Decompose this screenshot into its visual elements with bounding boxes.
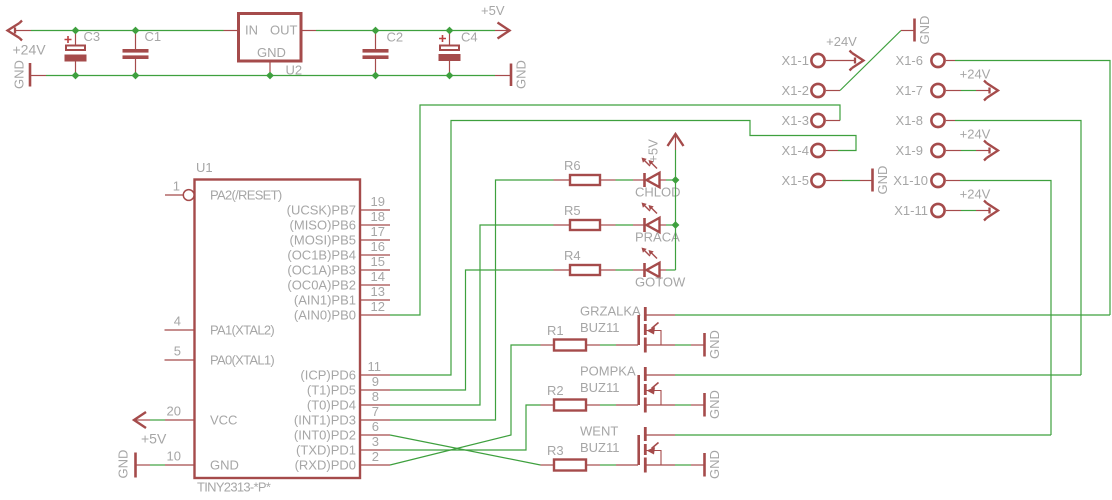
wire (source Q3 to ground) [675, 464, 691, 466]
wire (X1-9 to +24V) [961, 150, 976, 152]
junction node [132, 72, 140, 80]
svg-text:U1: U1 [196, 160, 213, 175]
svg-text:+5V: +5V [481, 3, 505, 18]
svg-text:GND: GND [707, 330, 722, 359]
svg-text:X1-8: X1-8 [896, 113, 923, 128]
svg-text:U2: U2 [286, 63, 303, 78]
svg-text:PA0(XTAL1): PA0(XTAL1) [210, 353, 274, 368]
svg-text:19: 19 [371, 194, 385, 209]
wire (LED CHLOD to +5V rail) [666, 179, 676, 181]
svg-text:(INT0)PD2: (INT0)PD2 [294, 428, 356, 443]
svg-text:(OC0A)PB2: (OC0A)PB2 [287, 278, 356, 293]
connector pin X1-3 [782, 113, 840, 128]
svg-text:(OC1A)PB3: (OC1A)PB3 [287, 263, 356, 278]
+24V supply arrow (X1-7) [976, 81, 998, 101]
svg-text:7: 7 [372, 404, 379, 419]
svg-text:11: 11 [368, 359, 382, 374]
resistor R6 [554, 158, 616, 185]
svg-text:X1-9: X1-9 [896, 143, 923, 158]
svg-text:X1-7: X1-7 [896, 83, 923, 98]
junction node [446, 27, 454, 35]
wire net PD4 to R5 [390, 225, 554, 405]
capacitor C1 [123, 29, 162, 76]
pin 9 (T1)PD5 [307, 374, 390, 398]
svg-text:20: 20 [167, 404, 181, 419]
pin 4 PA1(XTAL2) [165, 314, 275, 338]
junction node [672, 176, 680, 184]
svg-text:X1-4: X1-4 [782, 143, 809, 158]
pin 15 (OC1A)PB3 [287, 254, 390, 278]
svg-text:GND: GND [12, 60, 27, 89]
pin 8 (T0)PD4 [307, 389, 390, 413]
ground (X1-2) [901, 16, 932, 45]
ground (Q2 source) [691, 390, 722, 419]
wire (X1-2 pin stub) [826, 90, 840, 92]
svg-text:PA2(/RESET): PA2(/RESET) [210, 188, 282, 203]
resistor R4 [554, 248, 616, 275]
pin 1 PA2(/RESET) [165, 179, 282, 203]
pin 19 (UCSK)PB7 [287, 194, 390, 218]
ground (Q3 source) [691, 450, 722, 479]
svg-text:10: 10 [167, 449, 181, 464]
wire (R5 to LED) [616, 224, 634, 226]
svg-text:(UCSK)PB7: (UCSK)PB7 [287, 203, 356, 218]
+24V supply arrow (X1-11) [976, 201, 998, 221]
pin 18 (MISO)PB6 [290, 209, 390, 233]
svg-text:GND: GND [875, 166, 890, 195]
pin 10 GND [165, 449, 239, 473]
wire net PD3 to R6 [390, 180, 554, 420]
svg-text:16: 16 [371, 239, 385, 254]
LED CHLOD [633, 158, 681, 200]
svg-text:R3: R3 [547, 443, 564, 458]
wire (GND pin) [150, 464, 165, 466]
pin 12 (AIN0)PB0 [294, 299, 390, 323]
svg-text:4: 4 [174, 314, 181, 329]
connector pin X1-2 [782, 83, 825, 98]
wire (R1 to gate Q1) [600, 344, 616, 346]
svg-text:X1-3: X1-3 [782, 113, 809, 128]
pin 11 (ICP)PD6 [300, 359, 390, 383]
svg-text:17: 17 [371, 224, 385, 239]
svg-text:6: 6 [372, 419, 379, 434]
svg-text:2: 2 [372, 449, 379, 464]
svg-text:C2: C2 [387, 30, 404, 45]
wire net PB0 to X1-3 [390, 105, 840, 315]
wire (R4 to LED) [616, 269, 634, 271]
wire (X1-7 to +24V) [961, 90, 976, 92]
svg-text:GRZALKA: GRZALKA [580, 304, 641, 319]
wire (X1-2 to ground, diagonal) [840, 31, 901, 91]
junction node [672, 221, 680, 229]
ground GND (supply input) [12, 60, 47, 89]
svg-text:X1-6: X1-6 [896, 53, 923, 68]
wire +5V LED rail [675, 150, 677, 270]
svg-text:(RXD)PD0: (RXD)PD0 [295, 458, 356, 473]
svg-text:(ICP)PD6: (ICP)PD6 [300, 368, 356, 383]
svg-text:BUZ11: BUZ11 [580, 320, 620, 335]
wire net PD5 to R4 [390, 270, 554, 390]
svg-text:C1: C1 [145, 29, 162, 44]
resistor R2 [541, 383, 601, 411]
pin 17 (MOSI)PB5 [290, 224, 390, 248]
connector pin X1-4 [782, 143, 838, 158]
+5V supply arrow [495, 23, 510, 39]
svg-text:R2: R2 [547, 383, 564, 398]
voltage regulator U2 [224, 14, 317, 78]
svg-text:(INT1)PD3: (INT1)PD3 [294, 413, 356, 428]
svg-text:R1: R1 [547, 323, 564, 338]
svg-text:PRACA: PRACA [635, 230, 680, 245]
svg-text:+5V: +5V [646, 139, 661, 163]
svg-text:(T0)PD4: (T0)PD4 [307, 398, 356, 413]
pin 20 VCC [165, 404, 237, 428]
connector pin X1-7 [896, 83, 961, 98]
svg-text:X1-1: X1-1 [782, 53, 809, 68]
resistor R1 [541, 323, 601, 351]
wire (source Q2 to ground) [675, 404, 691, 406]
svg-text:GND: GND [257, 45, 286, 60]
svg-text:(TXD)PD1: (TXD)PD1 [296, 443, 356, 458]
junction node [72, 72, 80, 80]
svg-text:C3: C3 [84, 29, 101, 44]
pin 5 PA0(XTAL1) [165, 344, 275, 368]
ground GND (rail right) [495, 60, 529, 89]
pin 13 (AIN1)PB1 [294, 284, 390, 308]
svg-text:(AIN0)PB0: (AIN0)PB0 [294, 308, 356, 323]
wire (X1-10 to drain Q3) [960, 181, 1051, 436]
wire +24V top rail [31, 30, 224, 32]
svg-text:GND: GND [917, 16, 932, 45]
svg-text:+24V: +24V [826, 34, 857, 49]
wire (R6 to LED) [616, 179, 634, 181]
ground GND (U1) [116, 450, 151, 479]
wire (drain Q3 to X1-10) [675, 434, 1051, 436]
svg-text:C4: C4 [461, 30, 478, 45]
wire (R2 to gate Q2) [600, 404, 616, 406]
svg-text:X1-5: X1-5 [782, 173, 809, 188]
capacitor C3 [65, 29, 101, 76]
wire (drain Q1 to X1-6) [675, 314, 1110, 316]
svg-text:14: 14 [371, 269, 385, 284]
svg-text:12: 12 [371, 299, 385, 314]
svg-text:13: 13 [371, 284, 385, 299]
+24V supply arrow (X1-1) [826, 51, 864, 71]
svg-text:+5V: +5V [141, 431, 167, 447]
svg-text:3: 3 [372, 434, 379, 449]
transistor Q2 BUZ11 POMPKA [580, 364, 675, 413]
svg-text:(MISO)PB6: (MISO)PB6 [290, 218, 356, 233]
svg-text:CHLOD: CHLOD [635, 185, 681, 200]
svg-text:BUZ11: BUZ11 [580, 440, 620, 455]
svg-text:1: 1 [173, 179, 180, 194]
svg-text:5: 5 [174, 344, 181, 359]
wire (VCC to +5V) [150, 419, 165, 421]
svg-text:X1-11: X1-11 [894, 203, 928, 218]
wire +5V top rail [316, 30, 495, 32]
svg-text:TINY2313-*P*: TINY2313-*P* [197, 480, 271, 495]
resistor R5 [554, 203, 616, 230]
pin 3 (TXD)PD1 [296, 434, 390, 458]
wire net PD0 to R1 (diagonal) [390, 345, 541, 465]
wire (LED GOTOW to +5V rail) [666, 269, 676, 271]
connector pin X1-1 [782, 53, 825, 68]
svg-text:9: 9 [372, 374, 379, 389]
svg-text:R6: R6 [564, 158, 581, 173]
junction node [372, 72, 380, 80]
svg-text:(OC1B)PB4: (OC1B)PB4 [287, 248, 356, 263]
connector pin X1-5 [782, 173, 842, 188]
svg-text:WENT: WENT [580, 424, 618, 439]
connector pin X1-9 [896, 143, 961, 158]
pin 2 (RXD)PD0 [295, 449, 390, 473]
wire net PD2 to R3 (diagonal) [390, 435, 541, 465]
LED GOTOW [633, 248, 686, 290]
resistor R3 [541, 443, 601, 471]
svg-text:GOTOW: GOTOW [635, 275, 686, 290]
+24V supply arrow (X1-9) [976, 141, 998, 161]
svg-text:+24V: +24V [960, 187, 991, 202]
junction node [266, 72, 274, 80]
connector pin X1-10 [893, 173, 960, 188]
junction node [72, 27, 80, 35]
svg-text:GND: GND [210, 458, 239, 473]
svg-text:OUT: OUT [270, 23, 298, 38]
wire GND bottom rail [46, 75, 495, 77]
LED PRACA [633, 203, 680, 245]
ground (X1-5) [860, 166, 890, 195]
svg-text:GND: GND [514, 60, 529, 89]
ground (Q1 source) [691, 330, 722, 359]
svg-text:IN: IN [245, 23, 258, 38]
svg-text:PA1(XTAL2): PA1(XTAL2) [210, 323, 274, 338]
wire (X1-5 to ground) [842, 180, 860, 182]
wire (X1-11 to +24V) [961, 210, 976, 212]
svg-text:X1-2: X1-2 [782, 83, 809, 98]
junction node [372, 27, 380, 35]
capacitor C4 [439, 30, 478, 76]
svg-text:X1-10: X1-10 [893, 173, 928, 188]
svg-text:15: 15 [371, 254, 385, 269]
pin 6 (INT0)PD2 [294, 419, 390, 443]
wire (LED PRACA to +5V rail) [666, 224, 676, 226]
svg-text:18: 18 [371, 209, 385, 224]
connector pin X1-8 [896, 113, 955, 128]
wire (X1-6 to drain Q1) [955, 61, 1110, 316]
wire net PD1 to R2 [390, 405, 541, 450]
svg-text:R5: R5 [564, 203, 581, 218]
+24V supply arrow [8, 21, 32, 41]
pin 16 (OC1B)PB4 [287, 239, 390, 263]
wire (drain Q2 to X1-8) [675, 374, 1081, 376]
svg-text:GND: GND [116, 450, 131, 479]
svg-text:+24V: +24V [13, 42, 47, 58]
wire (X1-8 to drain Q2) [955, 121, 1081, 376]
svg-text:VCC: VCC [210, 413, 237, 428]
svg-text:(AIN1)PB1: (AIN1)PB1 [294, 293, 356, 308]
svg-text:+24V: +24V [960, 67, 991, 82]
svg-text:GND: GND [707, 450, 722, 479]
pin 7 (INT1)PD3 [294, 404, 390, 428]
wire net PD6 to X1-4 [390, 121, 856, 376]
svg-text:(T1)PD5: (T1)PD5 [307, 383, 356, 398]
svg-text:BUZ11: BUZ11 [580, 380, 620, 395]
junction node [446, 72, 454, 80]
transistor Q3 BUZ11 WENT [580, 424, 675, 473]
svg-text:8: 8 [372, 389, 379, 404]
wire (R3 to gate Q3) [600, 464, 616, 466]
svg-text:(MOSI)PB5: (MOSI)PB5 [290, 233, 356, 248]
transistor Q1 BUZ11 GRZALKA [580, 304, 675, 353]
svg-text:POMPKA: POMPKA [580, 364, 636, 379]
wire (source Q1 to ground) [675, 344, 691, 346]
svg-text:R4: R4 [564, 248, 581, 263]
svg-text:GND: GND [707, 390, 722, 419]
svg-text:+24V: +24V [960, 127, 991, 142]
+5V supply arrow (LED rail) [668, 134, 684, 150]
junction node [132, 27, 140, 35]
+5V supply arrow (VCC) [134, 412, 150, 428]
pin 14 (OC0A)PB2 [287, 269, 390, 293]
capacitor C2 [363, 30, 404, 76]
IC U1 TINY2313 body [195, 180, 361, 479]
connector pin X1-11 [894, 203, 961, 218]
connector pin X1-6 [896, 53, 955, 68]
